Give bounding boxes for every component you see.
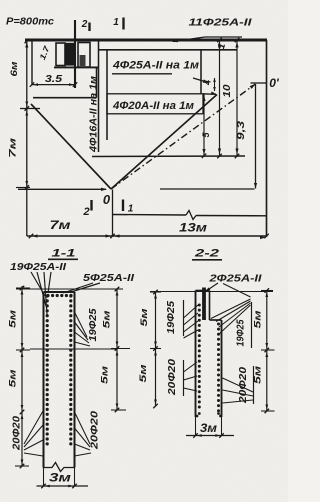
point O' label [269,76,280,90]
underline 20Ф20 left 2-2 [183,360,185,396]
dim 5 line [202,95,207,159]
diagonal left to O [31,104,111,189]
svg-text:5м: 5м [253,366,264,384]
step line y98 [33,97,97,99]
point O' tick [251,82,267,84]
label 19Ф25А-II [10,261,67,273]
bottom dim tick left [29,234,38,239]
label 19Ф25 right 2-2 [236,319,247,346]
label 20Ф20 left 1-1 [12,416,23,452]
rebar box 1 underline [112,73,172,75]
bottom dim line [27,235,267,237]
svg-text:20Ф20: 20Ф20 [167,358,178,396]
label 5Ф25А-II [83,272,135,284]
label 20Ф20 right 1-1 [90,410,101,450]
svg-text:0': 0' [269,76,280,90]
svg-text:1: 1 [128,204,134,215]
svg-text:7м: 7м [50,218,71,232]
left dim line [26,40,28,236]
svg-text:4: 4 [203,80,213,86]
plan top edge [25,39,267,42]
dim 1 label top [216,38,239,51]
point O' vertical [254,84,257,189]
dim 5м left-bottom 2-2 [138,365,149,383]
leaders 19Ф25 left 2-2 [184,305,199,338]
rebar box 1 right edge [200,50,202,94]
svg-text:4Ф20А-II на 1м: 4Ф20А-II на 1м [112,100,194,112]
leaders 20Ф20 right 2-2 [223,378,254,403]
label 11Ф25А-II [189,17,253,29]
left dim 2-2 ticks [150,290,161,409]
svg-text:13м: 13м [179,221,207,235]
svg-text:19Ф25: 19Ф25 [236,319,247,346]
svg-text:1-1: 1-1 [52,248,76,260]
svg-text:5м: 5м [138,365,149,383]
point O label [103,192,111,207]
label 20Ф20 left 2-2 [167,358,178,396]
O-level line left [18,188,107,191]
dim 3м 2-2 line [186,433,234,438]
label 20Ф20 right 2-2 [238,366,249,404]
plan right edge [266,40,268,237]
leaders 20Ф20 left 2-2 [184,362,198,391]
right dim 1-1 line [116,289,118,410]
block bottom shelf [54,66,98,68]
svg-text:0: 0 [103,192,111,207]
column 2-2 step [210,319,222,321]
column 2-2 bottom extensions [196,417,222,436]
dim 3.5 line [30,82,78,87]
svg-text:5м: 5м [100,366,111,384]
leaders 20Ф20 left 1-1 [24,411,43,456]
underline 19Ф25 left 2-2 [183,300,185,336]
column 1-1 top edge [44,291,75,293]
rebar boxes left edge [106,50,108,140]
top level line 2-2 [150,291,273,293]
dim 1.7 label [38,44,52,61]
label 19Ф25 left 2-2 [166,301,177,334]
svg-text:19Ф25А-II: 19Ф25А-II [10,261,67,273]
svg-text:5м: 5м [8,310,19,328]
dim 5м left-top 2-2 [139,309,150,327]
svg-text:7м: 7м [8,138,19,158]
label 19Ф25 right 1-1 [88,308,99,341]
svg-text:9,3: 9,3 [236,120,247,140]
dim 5м left-top 1-1 [8,310,19,328]
svg-text:20Ф20: 20Ф20 [12,416,23,452]
section 1-1 title [48,248,78,260]
leader 11Ф25А-II [172,37,242,42]
svg-text:19Ф25: 19Ф25 [166,301,177,334]
svg-text:2Ф25А-II: 2Ф25А-II [208,273,263,285]
svg-text:2-2: 2-2 [193,248,219,260]
svg-text:3м: 3м [200,421,217,435]
column 1-1 right rebar dots [69,294,72,445]
vertical line x98.5 [98,40,100,152]
left dim top tick [25,39,30,48]
label 2Ф25А-II [208,273,263,285]
column 2-2 right rebar dots [217,323,220,413]
right dim 2-2 line [266,291,268,412]
dim 5м left-bottom 1-1 [8,370,19,388]
rebar box 2 top extension [203,92,217,95]
svg-text:3м: 3м [49,471,71,485]
svg-text:11Ф25А-II: 11Ф25А-II [189,17,253,29]
dim 3м 2-2 label [200,421,217,435]
dim 7м bottom label [50,218,71,232]
underline 19Ф25 right 2-2 [251,302,253,348]
diagonal dash-dot O to O' [111,84,256,189]
svg-text:6м: 6м [9,62,20,77]
dim 7м label [8,138,19,158]
dim 5м right-bottom 1-1 [100,366,111,384]
svg-text:1: 1 [113,17,119,28]
svg-text:5м: 5м [139,309,150,327]
column 2-2 left edge [195,291,197,418]
svg-text:Р=800тс: Р=800тс [6,17,54,28]
dim 3.5 label [45,74,63,85]
right dim 2-2 ticks [261,288,275,413]
section 2-2 title [192,248,222,260]
dim 5м right-top 2-2 [253,311,264,329]
bottom dim tick mid [106,234,120,239]
dim 5 label [201,132,211,138]
leaders 19Ф25 right 1-1 [75,312,91,346]
leader 2Ф25А-II [205,283,218,292]
plan second top line [99,49,238,51]
section mark 2 top line [74,20,76,88]
section mark 1 top label [113,17,123,30]
dim 10 label [222,84,233,98]
column 2-2 bottom dots [196,412,222,417]
svg-text:3.5: 3.5 [45,74,63,85]
svg-text:2: 2 [82,206,89,218]
column 1-1 top rebar dots [46,294,72,297]
dim 4 label [203,80,213,86]
left outline extension [31,40,33,85]
diagonal right from O [111,95,217,190]
rebar box 2 outline [107,94,203,114]
column 2-2 bundle bar [202,288,206,321]
rebar box 2 label [112,100,194,112]
leaders 19Ф25 right 2-2 fan [211,284,251,335]
left dim 2-2 line [155,292,157,406]
vertical below O [112,190,114,237]
block right box [78,43,90,68]
rebar box 1 leader arrow [193,78,209,83]
section mark 2 top label [81,19,90,31]
dim 6м label [9,62,20,77]
dim 13м bottom label [179,221,207,235]
right dim 1-1 ticks [111,287,130,413]
svg-text:2: 2 [81,19,88,30]
load label P=800тс [6,17,54,28]
dim 10 line [217,40,222,158]
column 2-2 top edge [196,290,210,292]
svg-text:5м: 5м [253,311,264,329]
svg-text:20Ф20: 20Ф20 [90,410,101,450]
column 2-2 left rebar dots [198,304,201,409]
column 1-1 left edge [42,292,44,468]
O-level line right [160,188,255,190]
block white box [56,43,65,66]
section mark 1 bottom [123,200,134,215]
leaders 5Ф25А-II [63,283,100,293]
column 1-1 break [44,463,75,472]
svg-text:4Ф25А-II на 1м: 4Ф25А-II на 1м [112,60,199,72]
column 1-1 bottom extensions [44,468,75,487]
bottom dim tick right [260,234,269,239]
leaders 19Ф25А-II [31,272,51,315]
dim 5м right-top 1-1 [102,311,113,329]
rebar box 1 label [112,60,199,72]
leaders 20Ф20 right 1-1 [75,412,92,456]
dim 9.3 label [236,120,247,140]
column 1-1 right edge [73,292,75,468]
dim 9.3 line [235,40,240,158]
column 2-2 narrow right edge [209,291,211,321]
block black box [65,43,74,66]
left O-level tick [16,181,30,190]
horizontal line y156 [92,155,245,158]
underline 20Ф20 right 2-2 [253,366,255,404]
svg-text:19Ф25: 19Ф25 [88,308,99,341]
top level line 1-1 [16,288,123,290]
svg-text:5м: 5м [8,370,19,388]
lower-mid horizontal with break [113,211,267,220]
svg-text:5Ф25А-II: 5Ф25А-II [83,272,135,284]
dim 4 small [213,78,216,92]
svg-text:4Ф16А-II на 1м: 4Ф16А-II на 1м [89,75,100,153]
section mark 2 bottom [82,200,91,218]
svg-text:5м: 5м [102,311,113,329]
column 1-1 mid line [30,348,117,350]
column 1-1 left rebar dots [46,294,49,445]
column 2-2 wide right edge [221,320,223,417]
left dim 1-1 line [21,286,23,466]
left dim 1-1 ticks [15,286,30,469]
step connector x96.5 [96,67,98,97]
dim 5м right-bottom 2-2 [253,366,264,384]
left dim 6м-7м tick [20,102,40,116]
label 4Ф16А-II на 1м vertical [89,75,100,153]
dim 3м 1-1 line [37,484,89,489]
dim 3м 1-1 label [49,471,71,485]
svg-text:10: 10 [222,84,233,98]
